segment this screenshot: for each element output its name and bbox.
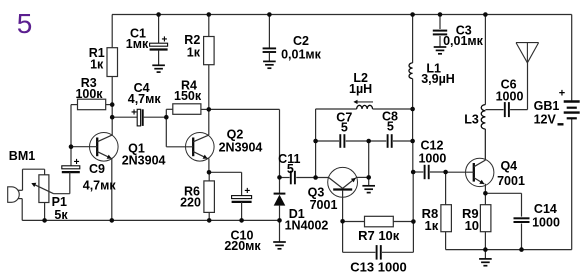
svg-text:5: 5 — [287, 162, 294, 176]
svg-text:1к: 1к — [187, 46, 201, 60]
svg-text:Q2: Q2 — [227, 127, 244, 141]
svg-text:2N3904: 2N3904 — [122, 154, 166, 168]
svg-text:Q4: Q4 — [500, 159, 517, 173]
svg-text:3,9µH: 3,9µH — [421, 72, 455, 86]
svg-text:0,01мк: 0,01мк — [281, 48, 322, 62]
svg-text:0,01мк: 0,01мк — [443, 34, 484, 48]
svg-text:C12: C12 — [421, 138, 444, 152]
svg-text:+: + — [131, 107, 137, 118]
svg-text:5: 5 — [387, 119, 394, 133]
svg-text:+: + — [74, 157, 80, 168]
svg-text:C13 1000: C13 1000 — [350, 259, 406, 274]
svg-text:150к: 150к — [174, 89, 202, 103]
svg-text:+: + — [244, 186, 250, 197]
svg-text:7001: 7001 — [497, 174, 525, 188]
svg-text:1к: 1к — [425, 218, 439, 233]
svg-text:2N3904: 2N3904 — [219, 141, 263, 155]
svg-text:C14: C14 — [534, 202, 557, 216]
svg-text:C2: C2 — [293, 34, 309, 48]
svg-text:7001: 7001 — [310, 198, 338, 212]
svg-text:10: 10 — [465, 218, 479, 233]
svg-text:4,7мк: 4,7мк — [83, 178, 117, 192]
svg-text:220: 220 — [180, 196, 201, 210]
svg-text:5: 5 — [341, 121, 348, 135]
svg-text:+: + — [161, 34, 167, 45]
svg-text:1к: 1к — [90, 58, 104, 72]
svg-text:100к: 100к — [75, 87, 103, 101]
svg-text:R7 10к: R7 10к — [358, 228, 400, 243]
svg-text:BM1: BM1 — [9, 149, 35, 163]
svg-text:4,7мк: 4,7мк — [128, 92, 162, 106]
svg-text:5: 5 — [17, 8, 33, 39]
svg-text:1N4002: 1N4002 — [285, 219, 329, 233]
svg-text:+: + — [559, 88, 565, 100]
svg-text:P1: P1 — [52, 195, 67, 209]
svg-text:1000: 1000 — [532, 216, 560, 230]
svg-text:12V: 12V — [534, 112, 557, 126]
svg-text:5к: 5к — [54, 208, 68, 222]
svg-text:1000: 1000 — [418, 152, 446, 166]
svg-text:C9: C9 — [89, 162, 105, 176]
svg-text:GB1: GB1 — [534, 99, 560, 113]
svg-text:L3: L3 — [464, 113, 479, 127]
svg-text:1мк: 1мк — [126, 37, 149, 51]
svg-text:1µH: 1µH — [349, 82, 372, 96]
svg-text:1000: 1000 — [496, 89, 524, 103]
svg-text:220мк: 220мк — [224, 239, 261, 253]
